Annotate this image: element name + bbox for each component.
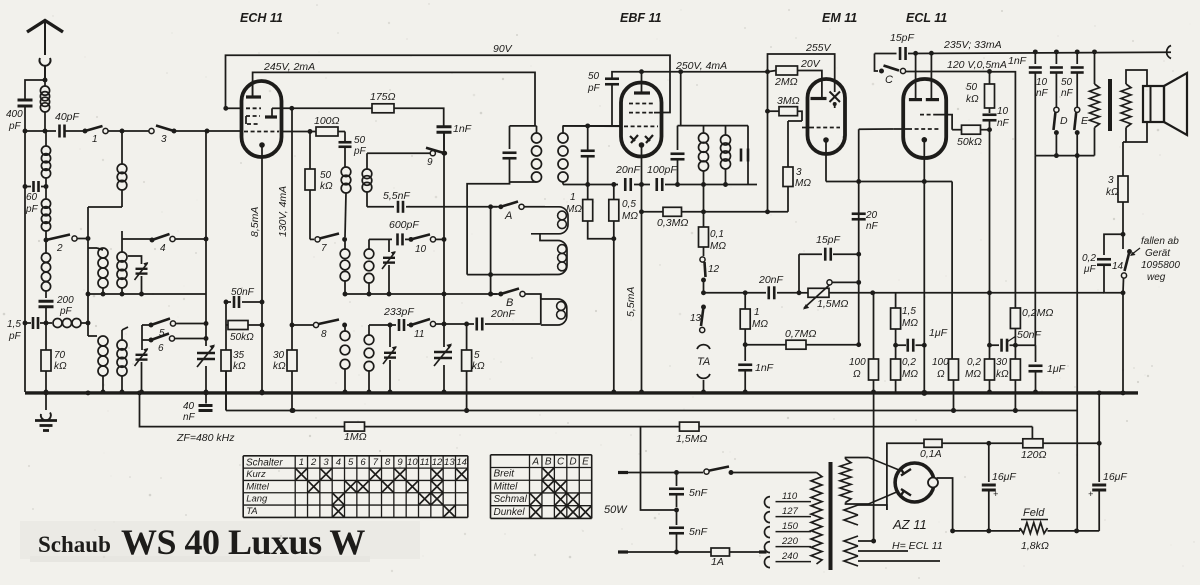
upper filter coil A (88, 248, 108, 294)
wire 20V (798, 58, 822, 99)
switch B (488, 289, 525, 310)
svg-text:16μF: 16μF (1103, 471, 1127, 483)
capacitor 5nF 2 (669, 510, 708, 554)
svg-text:90V: 90V (493, 43, 513, 55)
capacitor 600pF (389, 219, 419, 245)
svg-text:7: 7 (373, 457, 379, 468)
label 5.5mA (625, 287, 637, 317)
coil osc anode 2b (364, 333, 374, 394)
svg-text:1A: 1A (711, 556, 724, 568)
row 20nF B (436, 322, 474, 327)
lower filter trimmer (135, 325, 149, 394)
svg-text:nF: nF (1061, 88, 1074, 99)
note fallen ab (1130, 236, 1180, 283)
svg-text:50: 50 (1061, 77, 1073, 88)
svg-text:Schmal: Schmal (494, 494, 528, 505)
EBF11 screen2 dashes (629, 112, 662, 114)
svg-text:Breit: Breit (494, 469, 516, 480)
wire plate row y108 (282, 106, 373, 111)
main tuning capacitor 1 (197, 131, 215, 394)
svg-text:pF: pF (8, 121, 22, 132)
ground antenna (35, 390, 57, 431)
svg-text:5nF: 5nF (689, 487, 708, 499)
coil small horizontal (53, 319, 90, 328)
IF1 coil primary (510, 126, 542, 182)
svg-text:MΩ: MΩ (965, 369, 981, 380)
svg-text:5,5mA: 5,5mA (625, 287, 637, 317)
svg-text:Ω: Ω (853, 369, 861, 380)
EM11 anode bar (811, 97, 827, 100)
svg-text:20nF: 20nF (615, 164, 641, 176)
svg-text:Schaub: Schaub (38, 532, 111, 557)
resistor 30kOhm 2 (996, 345, 1020, 413)
ECH11 grid1 dashes (246, 107, 261, 109)
svg-text:120 V,0,5mA: 120 V,0,5mA (947, 59, 1007, 71)
EBF11 diodes (630, 135, 653, 143)
coil antenna input (40, 80, 49, 131)
ECH11 grid2 dashes (246, 116, 260, 124)
svg-text:9: 9 (397, 457, 403, 468)
resistor 0.1MOhm (699, 185, 727, 257)
svg-text:5nF: 5nF (689, 526, 708, 538)
svg-text:120Ω: 120Ω (1021, 449, 1047, 461)
resistor 0.7MOhm (785, 328, 859, 349)
svg-text:pF: pF (8, 331, 22, 342)
resistor 30kOhm (273, 109, 297, 413)
switch 10 (409, 234, 447, 255)
ECL11 triode anode (909, 53, 922, 99)
svg-text:1,5MΩ: 1,5MΩ (817, 298, 848, 310)
svg-text:30: 30 (273, 350, 285, 361)
svg-text:12: 12 (432, 457, 443, 468)
svg-text:35: 35 (233, 350, 245, 361)
svg-text:240: 240 (781, 551, 799, 562)
tube ECH11 (242, 81, 282, 157)
mains terminal 2 (618, 550, 711, 553)
resistor 35kOhm (221, 350, 246, 411)
wire 120V branch (990, 72, 1016, 308)
svg-text:EM 11: EM 11 (822, 11, 857, 25)
coil L2 (41, 131, 50, 199)
label ECH11 (240, 11, 283, 25)
capacitor 200pF (39, 295, 75, 323)
switch 1 (83, 126, 109, 145)
svg-text:B: B (545, 457, 552, 468)
svg-text:10: 10 (415, 244, 427, 255)
switch 3 (149, 126, 177, 146)
tube AZ11 (895, 463, 938, 502)
wire 50W (641, 427, 679, 513)
svg-text:1: 1 (754, 307, 760, 318)
wire grid drop (951, 126, 953, 130)
label 130V 4mA (277, 186, 289, 237)
tube EM11 (808, 79, 846, 154)
wire x25 upper (24, 107, 26, 131)
row out bottom (1035, 153, 1094, 158)
fuse 0.1A row (887, 439, 989, 510)
svg-text:C: C (557, 457, 565, 468)
svg-text:nF: nF (183, 412, 196, 423)
capacitor 20nF em (852, 210, 879, 232)
svg-text:weg: weg (1147, 272, 1166, 283)
svg-text:1,5: 1,5 (7, 319, 21, 330)
ECL11 pentode grid dashes (859, 128, 940, 130)
row 15pF (797, 254, 822, 295)
svg-text:0,2: 0,2 (1082, 253, 1096, 264)
svg-text:MΩ: MΩ (795, 178, 811, 189)
capacitor 16uF 1 (982, 443, 1017, 533)
ECH11 signal grid dashes (244, 131, 279, 133)
svg-text:11: 11 (414, 329, 424, 340)
audio row (701, 290, 766, 295)
switch 14 (1112, 234, 1132, 292)
output transformer secondary (1121, 70, 1147, 142)
resistor 0.2MOhm 2 (965, 343, 995, 395)
heater winding H (844, 536, 943, 566)
coil osc anode 2 (340, 325, 350, 394)
svg-text:14: 14 (1112, 261, 1124, 272)
capacitor 50nF osc (224, 287, 265, 308)
row 0.3M cont (701, 209, 788, 214)
capacitor 1nF out (1008, 52, 1042, 156)
svg-text:8: 8 (385, 457, 391, 468)
svg-text:Mittel: Mittel (246, 481, 270, 492)
resistor 175Ohm (370, 91, 396, 113)
fuse 1A (711, 548, 767, 568)
transformer HV winding (840, 458, 869, 505)
svg-text:20: 20 (865, 210, 878, 221)
upper filter coil B (117, 248, 127, 294)
capacitor 1nF af (738, 345, 773, 395)
resistor 100Ohm (314, 115, 345, 136)
wire x25 mid (24, 131, 26, 323)
lower filter coil B (117, 327, 128, 394)
svg-text:4: 4 (336, 457, 341, 468)
svg-text:50: 50 (320, 170, 332, 181)
svg-text:kΩ: kΩ (996, 369, 1009, 380)
column x989 (966, 72, 1010, 359)
svg-text:6: 6 (158, 343, 164, 354)
capacitor 10nF out (1036, 52, 1063, 107)
capacitor 400pF (6, 100, 33, 132)
lower filter coil A (88, 323, 108, 394)
svg-text:1,8kΩ: 1,8kΩ (1021, 540, 1049, 552)
rail 3 resistor 1.5MOhm (676, 422, 707, 445)
EBF11 screen dashes (629, 103, 654, 105)
svg-text:nF: nF (1036, 88, 1049, 99)
svg-text:fallen ab: fallen ab (1141, 236, 1179, 247)
switch 9 (426, 148, 447, 168)
svg-text:200: 200 (56, 295, 74, 306)
svg-text:2MΩ: 2MΩ (774, 76, 798, 88)
svg-text:50: 50 (354, 135, 366, 146)
wire antenna top-left corner (25, 78, 47, 99)
resistor 0.2MOhm 1 (891, 345, 919, 392)
svg-text:0,1A: 0,1A (920, 448, 942, 460)
switch 7 (310, 234, 347, 255)
svg-text:C: C (885, 74, 893, 86)
svg-text:+: + (993, 489, 998, 499)
svg-text:MΩ: MΩ (566, 204, 582, 215)
svg-text:AZ 11: AZ 11 (892, 517, 927, 532)
wire cathode ECH11 (260, 157, 265, 394)
EBF11 cathode (639, 142, 645, 156)
svg-text:nF: nF (866, 221, 879, 232)
switch 13 (690, 305, 706, 333)
svg-text:20V: 20V (800, 58, 821, 70)
EM11 cathode (823, 137, 829, 181)
svg-text:8,5mA: 8,5mA (249, 207, 261, 237)
heater feed (873, 393, 875, 541)
wire x226 (225, 302, 227, 350)
svg-text:1MΩ: 1MΩ (344, 431, 367, 443)
svg-text:1nF: 1nF (453, 123, 472, 135)
svg-text:A: A (531, 457, 539, 468)
wire x490 (488, 207, 493, 294)
svg-text:Schalter: Schalter (246, 458, 283, 469)
svg-text:kΩ: kΩ (233, 361, 246, 372)
svg-text:B: B (506, 297, 513, 309)
svg-text:7: 7 (321, 243, 327, 254)
svg-text:100: 100 (849, 357, 866, 368)
svg-text:3: 3 (161, 134, 167, 145)
switch table 2 (491, 455, 592, 519)
switch 4 (150, 234, 209, 254)
IF1 cap left (503, 126, 517, 182)
coupling coil 1 (524, 207, 568, 234)
svg-text:6: 6 (360, 457, 366, 468)
transformer core (829, 462, 833, 570)
capacitor 50pF osc grid (339, 132, 367, 168)
capacitor 1nF osc (437, 123, 472, 150)
svg-text:Lang: Lang (246, 494, 268, 505)
svg-text:TA: TA (697, 356, 710, 368)
pot wiper (827, 280, 859, 285)
switch C (875, 54, 906, 87)
svg-text:600pF: 600pF (389, 219, 419, 231)
wire row131 a (108, 129, 151, 134)
svg-text:255V: 255V (805, 42, 832, 54)
svg-text:E: E (582, 457, 589, 468)
ECH11 anode (246, 81, 261, 97)
EM11 grid dashes (802, 127, 840, 129)
svg-text:8: 8 (321, 329, 327, 340)
coil osc anode 1 (340, 239, 350, 296)
ECH11 grid3 dashes (247, 123, 260, 125)
svg-text:Dunkel: Dunkel (494, 507, 526, 518)
resistor 0.3MOhm (657, 207, 704, 229)
svg-text:20nF: 20nF (758, 274, 784, 286)
capacitor 1uF 2 (1029, 345, 1066, 394)
svg-text:50nF: 50nF (1017, 329, 1042, 341)
svg-text:Gerät: Gerät (1145, 248, 1171, 259)
svg-text:3: 3 (796, 167, 802, 178)
resistor 1.5MOhm bias (891, 293, 919, 348)
svg-text:D: D (1060, 115, 1068, 127)
svg-text:100Ω: 100Ω (314, 115, 340, 127)
EBF11 grid dashes (624, 125, 658, 127)
svg-text:4: 4 (160, 243, 166, 254)
svg-text:220: 220 (781, 536, 799, 547)
svg-text:100pF: 100pF (647, 164, 677, 176)
svg-text:0,2: 0,2 (967, 357, 981, 368)
svg-text:233pF: 233pF (383, 306, 414, 318)
transformer primary (810, 473, 822, 565)
wire ECL cathode (921, 158, 927, 396)
svg-text:400: 400 (6, 109, 23, 120)
resistor 1MOhm rail (344, 422, 367, 443)
svg-text:1: 1 (299, 457, 304, 468)
IF2 cap right (741, 126, 748, 185)
svg-text:1nF: 1nF (1008, 55, 1027, 67)
wire x1035 col (1034, 156, 1036, 346)
capacitor 1.5pF (7, 317, 52, 342)
IF1 cap right (581, 126, 595, 185)
row 235V dots (1033, 49, 1097, 54)
svg-text:13: 13 (690, 313, 702, 324)
svg-text:EBF 11: EBF 11 (620, 11, 661, 25)
wire speaker down (1123, 142, 1126, 176)
capacitor 50nF out (1061, 52, 1084, 107)
variable capacitor osc gang (434, 239, 452, 394)
capacitor 20nF af (758, 274, 799, 299)
coupling coil 2 (540, 234, 567, 275)
svg-text:5,5nF: 5,5nF (383, 190, 410, 202)
label EM11 (822, 11, 857, 25)
title WS40 (121, 522, 365, 562)
wire to 1nF (394, 108, 444, 126)
tube EBF11 (621, 83, 662, 157)
svg-text:40: 40 (183, 401, 195, 412)
switch D (1054, 107, 1069, 155)
mains switch (674, 467, 810, 475)
row 5.5nF (367, 190, 410, 207)
svg-text:127: 127 (782, 506, 799, 517)
IF1 top row (510, 123, 622, 128)
wire x1076 col (1076, 156, 1078, 531)
svg-text:1: 1 (92, 134, 98, 145)
svg-text:kΩ: kΩ (54, 361, 67, 372)
svg-text:40pF: 40pF (55, 111, 80, 123)
node row323 (23, 321, 49, 326)
svg-text:5: 5 (474, 350, 480, 361)
svg-text:50W: 50W (604, 504, 628, 516)
capacitor 0.2uF branch (1082, 234, 1123, 292)
trimmer osc 2 (383, 323, 397, 395)
coil L3 (41, 199, 50, 240)
ECL11 cathode (922, 137, 928, 158)
svg-text:MΩ: MΩ (902, 318, 918, 329)
wire cath row right (951, 182, 953, 360)
svg-text:pF: pF (25, 204, 39, 215)
node main row y131 left (23, 129, 56, 134)
svg-text:A: A (504, 210, 512, 222)
wire grid row EBF (563, 125, 621, 127)
title Schaub (38, 532, 111, 557)
coil osc grid 1 (341, 167, 351, 237)
wire 90V rail (223, 43, 670, 113)
coil osc anode 1b (364, 247, 374, 296)
svg-text:MΩ: MΩ (710, 241, 726, 252)
capacitor 20nF det (615, 164, 650, 191)
switch 9 row (367, 152, 430, 154)
svg-text:3MΩ: 3MΩ (777, 95, 800, 107)
label AZ11 (892, 517, 927, 532)
label 50W (604, 504, 628, 516)
svg-text:pF: pF (587, 83, 601, 94)
switch 4 row (122, 231, 151, 248)
detector row y184 (563, 184, 618, 186)
field coil row (953, 528, 1079, 533)
svg-text:Kurz: Kurz (246, 469, 266, 480)
IF2 cap left (671, 126, 685, 185)
svg-text:245V, 2mA: 245V, 2mA (263, 61, 315, 73)
HV to plates (869, 458, 900, 505)
ground bus (25, 390, 1138, 395)
svg-text:Ω: Ω (937, 369, 945, 380)
switch E (1074, 107, 1089, 155)
row y294 filter (88, 292, 206, 297)
wire row131 b (176, 129, 242, 134)
capacitor 15pF af (816, 234, 859, 261)
capacitor 5.5nF (398, 201, 500, 213)
wire EBF cathode down (639, 157, 644, 395)
svg-text:50kΩ: 50kΩ (957, 136, 982, 148)
AZ11 plates (901, 469, 912, 497)
wire x1123 bus (1121, 290, 1126, 395)
label 8.5mA (249, 207, 261, 237)
ECH11 hexode plate (265, 108, 282, 117)
tube ECL11 (903, 79, 946, 158)
audio rail right (870, 290, 1104, 295)
wire 255V (768, 42, 835, 92)
svg-text:50kΩ: 50kΩ (230, 332, 254, 343)
wire x467 AB (467, 182, 509, 275)
svg-text:11: 11 (420, 457, 430, 468)
resistor 100Ohm 2 (932, 357, 959, 413)
svg-text:kΩ: kΩ (966, 94, 979, 105)
capacitor 40nF (183, 393, 213, 423)
svg-text:14: 14 (456, 457, 467, 468)
wire row131 tube right (282, 129, 317, 134)
capacitor 1uF 1 (896, 327, 948, 352)
svg-text:MΩ: MΩ (622, 211, 638, 222)
rail 3 (140, 393, 680, 427)
svg-text:0,7MΩ: 0,7MΩ (785, 328, 816, 340)
svg-text:1μF: 1μF (929, 327, 948, 339)
svg-text:kΩ: kΩ (273, 361, 286, 372)
svg-text:WS 40 Luxus W: WS 40 Luxus W (121, 522, 365, 562)
svg-text:5: 5 (348, 457, 354, 468)
capacitor 230pF (383, 306, 414, 331)
resistor 100Ohm 1 (849, 293, 879, 395)
jack TA (697, 345, 710, 395)
svg-text:ZF=480 kHz: ZF=480 kHz (176, 432, 235, 444)
row 50nF (990, 329, 1042, 352)
wire grid ECH11 left (226, 107, 242, 109)
mains terminal 1 (618, 471, 677, 474)
svg-text:μF: μF (1083, 264, 1096, 275)
resistor 0.5MOhm (609, 182, 639, 394)
speaker (1143, 73, 1187, 135)
svg-text:E: E (1081, 115, 1089, 127)
svg-text:235V; 33mA: 235V; 33mA (943, 39, 1002, 51)
heater winding AZ (844, 505, 887, 525)
resistor 3kOhm (1106, 175, 1128, 237)
capacitor 100pF det (647, 164, 680, 191)
capacitor 60pF (23, 181, 49, 215)
resistor 50kOhm grid (952, 125, 992, 148)
